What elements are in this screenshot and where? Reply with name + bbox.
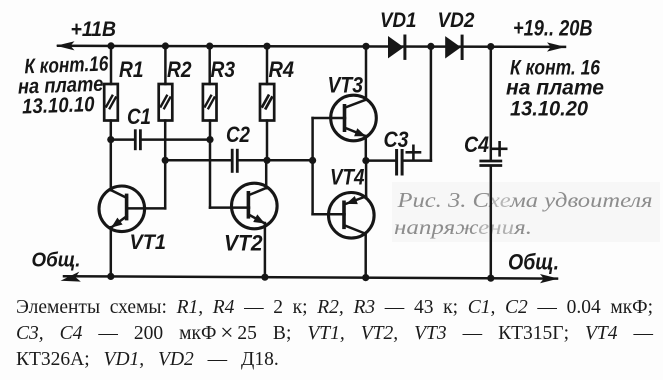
node: R1/C1/VT1 collector xyxy=(107,136,114,143)
wire: VT1 emitter to common rail xyxy=(110,227,113,276)
wire: R2 bottom down to VT1 base corner xyxy=(164,121,167,209)
wire: VT3 emitter to C3 node xyxy=(365,136,368,161)
transistor VT3 (NPN KT315G) xyxy=(331,95,377,141)
transistor VT4 (PNP KT326A) xyxy=(329,193,375,239)
svg-text:С3: С3 xyxy=(384,127,409,152)
wire: VT4 base lead xyxy=(313,213,345,216)
capacitor C1 xyxy=(111,131,210,149)
diode VD2 (D18) xyxy=(445,36,462,58)
node: rail-R2 xyxy=(162,42,169,49)
capacitor C4 (electrolytic) xyxy=(481,47,501,279)
svg-text:13.10.20: 13.10.20 xyxy=(510,98,588,121)
capacitor C2 xyxy=(165,150,312,171)
wire: C2 node to VT3/VT4 base column xyxy=(311,118,314,214)
node: VT3 emitter/VT4 emitter/C3 xyxy=(362,157,369,164)
node: VT2 emitter-common xyxy=(261,274,268,281)
svg-text:Общ.: Общ. xyxy=(32,249,81,272)
wire: +11V top supply rail xyxy=(58,46,565,47)
wire: VT4 collector to common rail xyxy=(364,234,367,278)
arrow: bottom rail right terminal xyxy=(540,274,559,283)
svg-text:на плате: на плате xyxy=(506,77,604,100)
wire: R1 bottom to VT1 collector xyxy=(110,121,113,191)
svg-text:13.10.10: 13.10.10 xyxy=(22,93,96,119)
wire: rail to R1 top xyxy=(110,46,113,84)
wire: VT2 emitter to common rail xyxy=(264,223,267,277)
wire: rail to R4 top xyxy=(266,46,269,84)
svg-text:С1: С1 xyxy=(127,104,151,129)
svg-text:R3: R3 xyxy=(211,57,236,82)
node: C2/base column xyxy=(309,157,316,164)
svg-text:VT2: VT2 xyxy=(224,231,263,256)
node: rail-R3 xyxy=(206,43,213,50)
svg-text:R2: R2 xyxy=(167,57,192,82)
arrow: top rail right terminal xyxy=(547,42,566,51)
node: rail-VT3 collector xyxy=(362,43,369,50)
label K kont.16 (left) xyxy=(17,52,111,118)
wire: VT4 emitter up to C3 node xyxy=(365,161,368,197)
wire: C3 to VD1/VD2 junction xyxy=(430,46,433,160)
svg-text:VT4: VT4 xyxy=(330,165,365,190)
svg-text:напряжения.: напряжения. xyxy=(394,215,532,239)
svg-text:VT1: VT1 xyxy=(130,230,167,254)
svg-text:+19.. 20В: +19.. 20В xyxy=(513,16,593,41)
svg-text:VD1: VD1 xyxy=(380,8,417,32)
label: C4 polarity plus xyxy=(493,142,506,155)
parts list text xyxy=(16,295,653,374)
wire: VT2 collector up to C2/R4 node xyxy=(265,160,268,188)
node: rail-R1 xyxy=(107,42,114,49)
svg-text:R1: R1 xyxy=(119,57,144,82)
svg-text:С4: С4 xyxy=(464,132,489,157)
node: rail-R4 xyxy=(263,43,270,50)
svg-text:VD2: VD2 xyxy=(438,8,475,32)
node: C1/R3 xyxy=(206,136,213,143)
wire: VT3 collector to top rail xyxy=(365,46,368,100)
wire: R3 bottom down to VT2 base corner xyxy=(209,121,212,208)
node: rail-C4 top xyxy=(487,43,494,50)
arrow: bottom rail left terminal xyxy=(61,272,81,282)
svg-text:+11В: +11В xyxy=(71,18,117,41)
resistor R1 xyxy=(104,84,118,121)
diode VD1 (D18) xyxy=(388,36,405,58)
node: R2/C2 xyxy=(162,157,169,164)
transistor VT1 (NPN KT315G) xyxy=(99,186,145,232)
transistor VT2 (NPN KT315G) xyxy=(232,183,278,229)
node: VT4 collector-common xyxy=(362,274,369,281)
wire: VT1 base lead xyxy=(127,207,165,210)
label: C3 polarity plus xyxy=(407,146,420,159)
wire: VT3 base lead xyxy=(313,117,345,120)
resistor R4 xyxy=(260,84,274,121)
svg-text:Рис. 3. Схема удвоителя: Рис. 3. Схема удвоителя xyxy=(396,188,652,212)
node: R4/C2/VT2 collector xyxy=(263,157,270,164)
svg-text:VT3: VT3 xyxy=(328,73,364,98)
caption: Рис. 3. Схема удвоителя напряжения. xyxy=(394,188,653,239)
node: VT1 emitter-common xyxy=(107,273,114,280)
wire: VT2 base lead xyxy=(210,206,249,209)
node: C4 bottom-common xyxy=(487,275,494,282)
resistor R2 xyxy=(159,84,173,121)
capacitor C3 (electrolytic) xyxy=(366,151,431,175)
wire: rail to R2 top xyxy=(164,46,167,84)
svg-text:С2: С2 xyxy=(226,122,251,147)
wire: rail to R3 top xyxy=(208,46,211,84)
svg-text:R4: R4 xyxy=(269,57,295,82)
resistor R3 xyxy=(203,84,217,121)
wire: common bottom rail xyxy=(64,276,557,278)
arrow: top rail left terminal xyxy=(56,41,75,50)
wire: R4 bottom to C2 node xyxy=(266,121,269,161)
scan smudge behind caption xyxy=(392,182,660,242)
node: VD1-VD2 junction xyxy=(427,43,434,50)
svg-text:Общ.: Общ. xyxy=(508,250,559,275)
